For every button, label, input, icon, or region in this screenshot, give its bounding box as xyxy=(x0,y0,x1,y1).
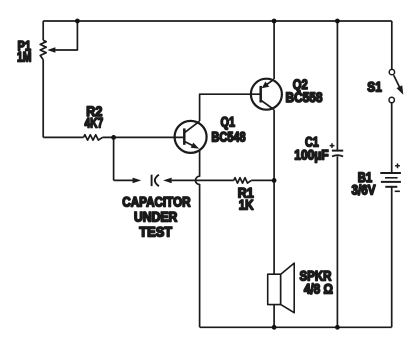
svg-text:CAPACITOR: CAPACITOR xyxy=(122,194,191,209)
svg-text:UNDER: UNDER xyxy=(134,210,178,225)
wire bottom rail xyxy=(200,326,392,328)
wire speaker to bottom rail xyxy=(273,305,275,328)
wire Q2 emitter up to top rail xyxy=(273,21,275,79)
svg-text:S1: S1 xyxy=(367,79,382,94)
wire Q2 collector down to speaker xyxy=(273,110,275,275)
wire Q1 collector up to Q2 base xyxy=(200,94,260,121)
node A junction R2 / test capacitor xyxy=(111,135,116,140)
svg-text:BC548: BC548 xyxy=(211,129,246,144)
svg-text:1M: 1M xyxy=(17,49,32,64)
speaker SPKR xyxy=(268,263,333,313)
wire R1 to Q2 collector line xyxy=(251,179,274,181)
wire Q1 emitter down to bottom rail (with hop over probe wire) xyxy=(195,151,199,328)
resistor R2 xyxy=(84,104,104,140)
node C1 at bottom rail xyxy=(335,325,340,330)
capacitor under test (probe arrows and symbol) xyxy=(114,175,191,240)
node R1 / collector junction xyxy=(272,178,277,183)
svg-text:3/6V: 3/6V xyxy=(352,183,376,198)
resistor R1 xyxy=(234,178,254,213)
node C1 at top rail xyxy=(335,19,340,24)
node speaker at bottom rail xyxy=(272,325,277,330)
wire node A down to test probe xyxy=(113,137,115,180)
transistor Q1 xyxy=(175,115,246,153)
transistor Q2 xyxy=(251,77,323,110)
wire left to R2 xyxy=(43,136,83,138)
switch S1 xyxy=(367,21,403,103)
svg-text:4/8 Ω: 4/8 Ω xyxy=(304,282,333,297)
svg-text:1K: 1K xyxy=(239,198,254,213)
node P1 wiper junction xyxy=(75,19,80,24)
potentiometer P1 xyxy=(17,21,77,64)
svg-text:BC558: BC558 xyxy=(286,90,323,105)
svg-text:Q1: Q1 xyxy=(221,115,236,130)
svg-text:TEST: TEST xyxy=(139,225,173,240)
wire battery to bottom rail xyxy=(391,187,393,327)
wire top rail xyxy=(43,20,392,22)
wire S1 to battery xyxy=(391,103,393,173)
wire P1 bottom lead xyxy=(42,60,44,138)
battery B1 xyxy=(352,163,401,197)
wire probe to R1 xyxy=(172,179,234,181)
wire R2 to Q1 base xyxy=(103,136,184,138)
wire P1 top lead xyxy=(42,21,44,40)
capacitor C1 xyxy=(294,21,343,327)
svg-text:4K7: 4K7 xyxy=(85,116,104,131)
svg-text:100µF: 100µF xyxy=(294,148,328,163)
node Q2 emitter at top rail xyxy=(272,19,277,24)
